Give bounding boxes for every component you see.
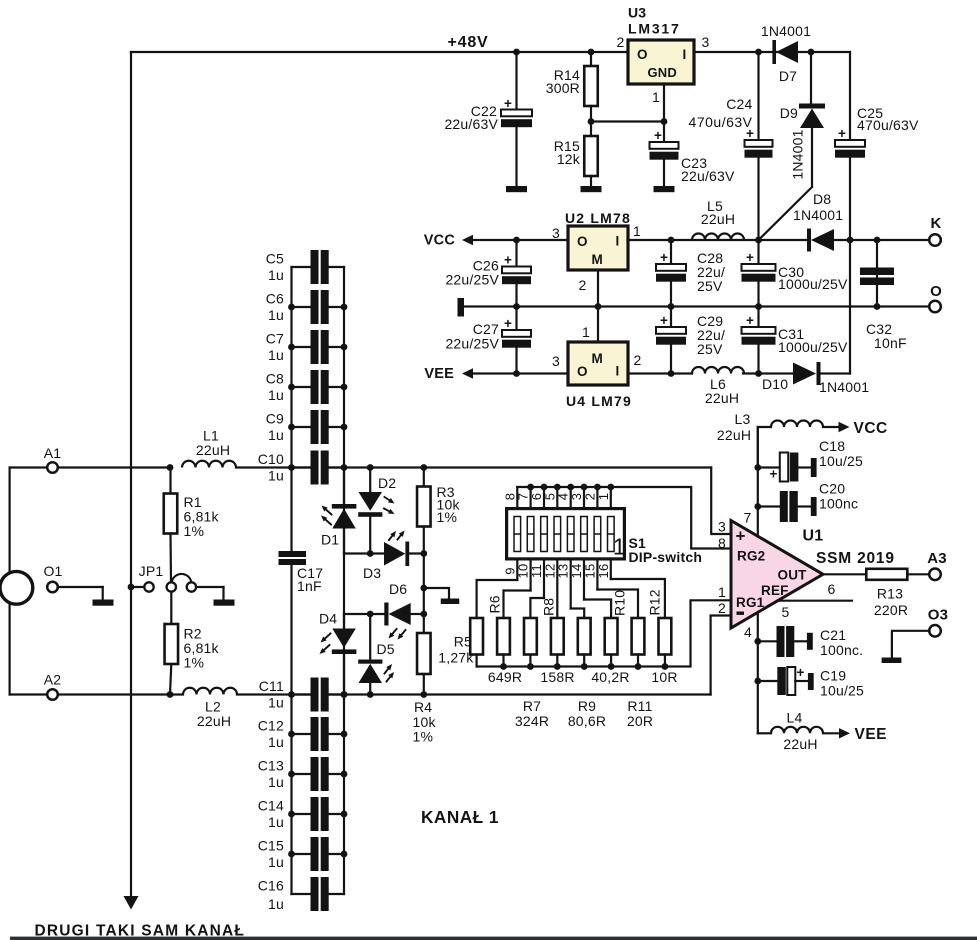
svg-text:1u: 1u	[268, 267, 284, 283]
node C24 junction	[755, 49, 762, 56]
label R7 324R	[515, 698, 549, 729]
svg-text:+: +	[736, 527, 746, 546]
wire A1 signal line	[236, 466, 311, 468]
node +48V/C22 junction	[513, 49, 520, 56]
svg-text:C7: C7	[266, 331, 284, 347]
svg-text:JP1: JP1	[139, 563, 164, 579]
svg-text:25V: 25V	[697, 278, 723, 294]
svg-text:3: 3	[552, 353, 560, 369]
node D4 bottom junction	[341, 691, 348, 698]
svg-text:R9: R9	[578, 698, 596, 714]
svg-text:1: 1	[652, 89, 660, 105]
svg-text:10nF: 10nF	[874, 335, 907, 351]
node C28/C29 junction	[668, 303, 675, 310]
capacitor C12 1u	[258, 717, 348, 751]
svg-text:470u/63V: 470u/63V	[689, 114, 753, 130]
wire common O rail	[464, 305, 930, 307]
svg-text:+: +	[504, 253, 512, 268]
svg-text:3: 3	[552, 225, 560, 241]
svg-text:D7: D7	[779, 68, 797, 84]
svg-text:6: 6	[828, 581, 836, 597]
svg-text:R8: R8	[541, 598, 557, 616]
svg-text:7: 7	[744, 510, 752, 526]
svg-text:I: I	[616, 234, 620, 249]
node C21 junction	[754, 638, 761, 645]
svg-text:1N4001: 1N4001	[819, 379, 869, 395]
resistor R9	[578, 618, 591, 667]
op-amp U1 SSM2019	[731, 521, 823, 629]
switch slot 6 S1	[581, 517, 588, 552]
svg-text:C11: C11	[259, 678, 284, 694]
svg-text:10u/25: 10u/25	[819, 453, 863, 469]
resistor R2 6,81k	[165, 592, 220, 695]
svg-text:D3: D3	[363, 565, 381, 581]
svg-text:LM317: LM317	[628, 21, 681, 37]
resistor R5	[470, 618, 483, 667]
label R11 20R	[627, 698, 653, 729]
VEE rail arrow	[424, 366, 568, 382]
capacitor C11 1u	[259, 678, 348, 712]
node U3 pin1/C23 junction	[661, 118, 668, 125]
svg-text:C10: C10	[258, 451, 284, 467]
svg-text:VCC: VCC	[854, 420, 888, 437]
terminal A1	[10, 445, 170, 473]
capacitor C23	[650, 122, 736, 187]
svg-text:1u: 1u	[268, 468, 284, 484]
node R14/R15 junction	[588, 118, 595, 125]
wire ground tap stub	[424, 588, 449, 599]
pin 5 stub S1	[556, 487, 558, 507]
svg-text:22uH: 22uH	[196, 442, 230, 458]
wire pin14 to R10	[584, 600, 611, 619]
svg-text:+: +	[660, 313, 668, 328]
svg-text:VEE: VEE	[424, 366, 454, 382]
capacitor C20 100nc	[758, 481, 858, 523]
node C25 bottom junction	[847, 237, 854, 244]
svg-text:+: +	[746, 250, 754, 265]
capacitor C8 1u	[266, 370, 348, 404]
resistor R7	[524, 618, 537, 667]
svg-text:300R: 300R	[546, 80, 580, 96]
svg-text:1: 1	[596, 493, 611, 500]
svg-text:D6: D6	[389, 581, 407, 597]
terminal A3	[927, 550, 947, 580]
svg-text:+: +	[838, 126, 846, 141]
regulator U4 LM79	[552, 307, 642, 410]
svg-text:U1: U1	[803, 528, 824, 545]
terminal O3	[892, 607, 948, 658]
svg-text:2: 2	[718, 600, 726, 616]
svg-text:D4: D4	[319, 611, 337, 627]
inductor L5 22uH	[692, 198, 744, 240]
svg-text:R11: R11	[627, 698, 652, 714]
svg-text:C16: C16	[258, 878, 284, 894]
node C30/C31 junction	[755, 303, 762, 310]
node D1/D2/D3 junction	[367, 550, 374, 557]
wire left input vertical	[9, 468, 11, 695]
resistor R4 10k	[413, 614, 437, 745]
svg-text:10R: 10R	[651, 669, 677, 685]
diode D7 1N4001	[761, 23, 811, 84]
node gain bus junction	[662, 663, 669, 670]
svg-text:M: M	[592, 351, 603, 366]
regulator U2 LM78	[552, 210, 641, 307]
capacitor C17 1nF	[279, 551, 324, 594]
terminal O1	[43, 563, 102, 599]
capacitor C29	[656, 307, 725, 374]
svg-text:1u: 1u	[268, 387, 284, 403]
node gain bus junction	[554, 663, 561, 670]
switch slot 8 S1	[608, 517, 615, 552]
capacitor C18 10u/25	[758, 438, 863, 482]
diode D1	[321, 468, 370, 554]
svg-text:+: +	[797, 665, 805, 680]
svg-text:2: 2	[634, 352, 642, 368]
svg-text:C20: C20	[819, 481, 845, 497]
svg-text:4: 4	[744, 624, 752, 640]
svg-text:L3: L3	[735, 411, 751, 427]
svg-text:C24: C24	[726, 96, 752, 112]
inductor L6 22uH	[692, 367, 744, 406]
node C32 top junction	[874, 237, 881, 244]
svg-text:22u/25V: 22u/25V	[445, 336, 499, 352]
resistor R15	[554, 122, 598, 187]
svg-text:U2 LM78: U2 LM78	[565, 210, 631, 226]
node C24/D9/C30 junction	[755, 237, 762, 244]
pin 12 stub S1	[556, 561, 558, 619]
node +48V/R14 junction	[588, 49, 595, 56]
ground center tap	[441, 599, 460, 605]
svg-text:324R: 324R	[515, 713, 549, 729]
regulator U3 LM317	[617, 5, 710, 122]
wire opamp pin4 supply	[757, 613, 759, 733]
bottom page border	[10, 937, 977, 940]
pin 3 stub S1	[583, 487, 585, 507]
resistor R12	[659, 618, 672, 667]
resistor R3 10k	[417, 468, 460, 554]
svg-text:L4: L4	[787, 710, 803, 726]
pin 14 stub S1	[583, 561, 585, 600]
svg-text:R7: R7	[523, 698, 541, 714]
wire pin11 to R7	[530, 598, 544, 618]
svg-text:O: O	[577, 364, 588, 379]
node C28 top junction	[668, 237, 675, 244]
diode D3	[363, 531, 424, 582]
pin 11 stub S1	[543, 561, 545, 599]
svg-text:D5: D5	[377, 641, 395, 657]
capacitor C6 1u	[266, 290, 348, 324]
svg-text:1: 1	[633, 223, 641, 239]
switch slot 1 S1	[514, 517, 521, 552]
svg-text:158R: 158R	[540, 669, 574, 685]
svg-text:C9: C9	[266, 411, 284, 427]
svg-text:1u: 1u	[268, 896, 284, 912]
svg-text:100nc.: 100nc.	[820, 642, 863, 658]
svg-text:VEE: VEE	[855, 726, 888, 743]
svg-text:O: O	[577, 234, 588, 249]
inductor L4 22uH	[758, 710, 850, 753]
svg-text:+: +	[660, 250, 668, 265]
node ground tap junction	[420, 585, 427, 592]
pin 4 stub S1	[570, 487, 572, 507]
capacitor C21 100nc	[758, 626, 863, 658]
capacitor C15 1u	[258, 837, 348, 871]
svg-text:1u: 1u	[268, 427, 284, 443]
svg-text:220R: 220R	[874, 602, 908, 618]
capacitor C27	[445, 307, 531, 374]
wire gain network bottom bus to opamp pin1	[477, 600, 731, 666]
svg-text:M: M	[592, 252, 603, 267]
svg-text:80,6R: 80,6R	[568, 713, 606, 729]
svg-text:3: 3	[702, 34, 710, 50]
node C29 bottom junction	[668, 370, 675, 377]
resistor R11	[632, 618, 645, 667]
wire ladder left rail	[290, 267, 292, 551]
svg-text:1%: 1%	[184, 655, 205, 671]
node C18 junction	[754, 464, 761, 471]
svg-text:1nF: 1nF	[297, 578, 322, 594]
node gain bus junction	[608, 663, 615, 670]
node C26/C27 junction	[513, 303, 520, 310]
svg-text:22u/63V: 22u/63V	[681, 168, 735, 184]
svg-text:R5: R5	[454, 634, 472, 650]
svg-text:A3: A3	[927, 550, 947, 567]
wire raw positive K rail	[628, 239, 807, 241]
svg-text:D1: D1	[321, 532, 339, 548]
node gain bus junction	[527, 663, 534, 670]
svg-text:25V: 25V	[697, 341, 723, 357]
switch slot 4 S1	[554, 517, 561, 552]
ground O1	[93, 600, 114, 606]
node D6/R4 junction	[420, 611, 427, 618]
svg-text:C6: C6	[266, 291, 284, 307]
label R9 80,6R	[568, 698, 606, 729]
svg-text:22uH: 22uH	[717, 427, 751, 443]
capacitor C9 1u	[266, 410, 348, 444]
svg-text:1u: 1u	[268, 347, 284, 363]
node R3 top junction	[420, 464, 427, 471]
resistor R10	[605, 618, 618, 667]
svg-text:1,27k: 1,27k	[438, 650, 474, 666]
capacitor C30	[742, 240, 848, 307]
svg-text:R13: R13	[877, 585, 903, 601]
node C26 top junction	[513, 237, 520, 244]
node D2 top junction	[367, 464, 374, 471]
svg-text:OUT: OUT	[778, 568, 808, 583]
svg-text:470u/63V: 470u/63V	[857, 117, 919, 133]
svg-text:A1: A1	[44, 445, 62, 461]
node R4 bottom junction	[420, 691, 427, 698]
wire pin9 to R5	[477, 580, 518, 618]
wire pin13 to R9	[571, 609, 585, 619]
svg-text:+: +	[504, 96, 512, 111]
node D4/D5 junction	[367, 611, 374, 618]
svg-text:KANAŁ 1: KANAŁ 1	[421, 807, 499, 827]
pin 7 stub S1	[529, 487, 531, 507]
capacitor C25	[835, 52, 919, 240]
resistor R6	[497, 618, 510, 667]
wire S1 top bus to opamp pin8	[517, 487, 730, 549]
svg-text:DIP-switch: DIP-switch	[629, 549, 703, 565]
pin 16 stub S1	[610, 561, 612, 580]
resistor R1 6,81k	[164, 468, 220, 583]
capacitor C16 1u	[258, 877, 344, 912]
diode D9 1N4001	[759, 52, 826, 240]
svg-text:C15: C15	[258, 838, 284, 854]
switch slot 2 S1	[527, 517, 534, 552]
svg-text:1u: 1u	[268, 774, 284, 790]
wire opamp pin7 supply	[757, 427, 759, 537]
svg-text:R12: R12	[647, 589, 663, 615]
capacitor C28	[656, 240, 725, 307]
ground JP1	[214, 600, 235, 606]
svg-text:C18: C18	[819, 438, 845, 454]
wire R14/R15 to U3 pin1	[591, 120, 664, 122]
node D5 bottom junction	[367, 691, 374, 698]
microphone symbol	[0, 571, 33, 604]
svg-text:1: 1	[718, 584, 726, 600]
pin 1 stub S1	[610, 487, 612, 507]
svg-text:C21: C21	[820, 627, 846, 643]
ground C23	[654, 186, 675, 192]
svg-text:1u: 1u	[268, 734, 284, 750]
svg-text:I: I	[683, 47, 687, 62]
wire R3 chain to ground tap	[423, 554, 425, 589]
wire A2 line to opamp pin2	[711, 616, 731, 695]
diode D5	[358, 614, 395, 695]
arrow to second channel	[124, 896, 139, 910]
wire pin10 to R6	[504, 591, 531, 619]
wire pin16 to R12	[611, 579, 665, 618]
svg-text:1u: 1u	[268, 854, 284, 870]
resistor R14	[546, 52, 598, 122]
svg-text:22u/25V: 22u/25V	[445, 272, 499, 288]
pin 13 stub S1	[570, 561, 572, 609]
node C31 bottom junction	[755, 370, 762, 377]
node D3/R3 junction	[420, 550, 427, 557]
VCC rail arrow	[424, 233, 568, 249]
svg-text:10u/25: 10u/25	[820, 683, 864, 699]
svg-text:SSM 2019: SSM 2019	[816, 550, 895, 567]
label R5 1,27k	[438, 634, 474, 666]
svg-text:A2: A2	[44, 672, 62, 688]
svg-text:R4: R4	[414, 699, 432, 715]
svg-text:1%: 1%	[413, 729, 434, 745]
svg-text:1u: 1u	[268, 814, 284, 830]
svg-text:8: 8	[718, 535, 726, 551]
capacitor C22	[444, 52, 532, 186]
svg-text:C14: C14	[258, 798, 284, 814]
ground R15	[581, 186, 602, 192]
svg-text:+: +	[770, 467, 778, 482]
svg-text:R6: R6	[487, 595, 503, 613]
svg-text:C19: C19	[820, 668, 846, 684]
wire pin15 to R11	[597, 590, 638, 619]
node C20 junction	[754, 503, 761, 510]
svg-text:16: 16	[596, 564, 611, 579]
wire A1 line to opamp pin3	[711, 468, 730, 535]
capacitor C14 1u	[258, 797, 348, 831]
diode D6	[344, 581, 424, 640]
svg-text:1N4001: 1N4001	[793, 207, 843, 223]
node D9 junction	[808, 49, 815, 56]
svg-text:D2: D2	[378, 475, 396, 491]
svg-text:R10: R10	[612, 590, 628, 616]
svg-text:K: K	[930, 215, 941, 232]
svg-text:1%: 1%	[437, 509, 458, 525]
svg-text:+: +	[746, 313, 754, 328]
node gain bus junction	[635, 663, 642, 670]
svg-text:O: O	[637, 47, 648, 62]
svg-text:+48V: +48V	[447, 34, 488, 51]
terminal A2	[10, 672, 183, 700]
ground O3	[882, 658, 902, 664]
svg-text:REF: REF	[761, 583, 789, 598]
svg-text:20R: 20R	[627, 713, 653, 729]
diode D8 1N4001	[793, 191, 843, 252]
svg-text:2: 2	[579, 277, 587, 293]
svg-text:+: +	[654, 128, 662, 143]
svg-text:22uH: 22uH	[705, 390, 739, 406]
wire VEE rail right	[628, 372, 692, 374]
svg-text:O: O	[930, 283, 942, 300]
diode D2	[358, 468, 396, 554]
svg-text:GND: GND	[648, 65, 678, 80]
svg-text:D8: D8	[813, 191, 831, 207]
wire left vertical +48V feed	[130, 52, 132, 896]
capacitor C5 1u	[266, 250, 344, 284]
svg-text:22uH: 22uH	[701, 211, 735, 227]
svg-text:I: I	[616, 364, 620, 379]
switch slot 5 S1	[567, 517, 574, 552]
svg-text:2: 2	[617, 34, 625, 50]
switch slot 7 S1	[594, 517, 601, 552]
svg-text:1000u/25V: 1000u/25V	[778, 339, 848, 355]
node C32 bottom junction	[874, 303, 881, 310]
switch slot 3 S1	[541, 517, 548, 552]
node A2/R2/L2 junction	[167, 691, 174, 698]
svg-text:O1: O1	[43, 563, 62, 579]
node gain bus junction	[500, 663, 507, 670]
capacitor C24	[689, 52, 773, 240]
capacitor C13 1u	[258, 757, 348, 791]
svg-text:12k: 12k	[557, 151, 581, 167]
inductor L3 22uH	[717, 411, 850, 468]
svg-text:VCC: VCC	[424, 233, 456, 249]
diode D4	[319, 611, 356, 695]
resistor R13 220R	[823, 569, 930, 618]
node A1/R1/L1 junction	[167, 464, 174, 471]
node C19 junction	[754, 678, 761, 685]
pin 10 stub S1	[529, 561, 531, 591]
pin 6 stub S1	[543, 487, 545, 507]
terminal K	[929, 215, 941, 246]
svg-text:+: +	[504, 316, 512, 331]
DIP switch S1 body	[507, 509, 625, 559]
svg-text:1: 1	[582, 324, 590, 340]
svg-text:40,2R: 40,2R	[591, 669, 629, 685]
svg-text:1000u/25V: 1000u/25V	[778, 276, 848, 292]
svg-text:C5: C5	[266, 251, 284, 267]
common O rail terminator bar	[458, 298, 465, 317]
svg-text:22u/63V: 22u/63V	[444, 116, 498, 132]
ground C22	[506, 186, 527, 192]
svg-text:D10: D10	[762, 376, 788, 392]
resistor R8	[551, 618, 564, 667]
pin 8 stub S1	[516, 487, 518, 507]
svg-text:C12: C12	[258, 718, 284, 734]
svg-text:649R: 649R	[488, 669, 522, 685]
